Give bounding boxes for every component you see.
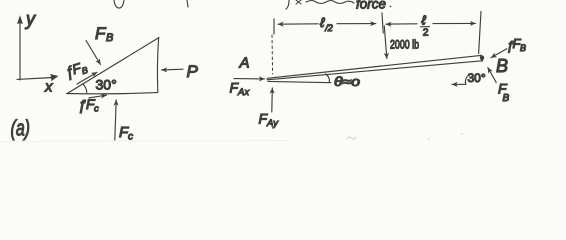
svg-text:P: P [187, 62, 199, 81]
beam bottom edge [267, 61, 482, 80]
dimension middle tick [382, 13, 383, 33]
svg-text:Ax: Ax [237, 87, 250, 98]
reaction F_Ay arrow [271, 88, 274, 112]
faint bottom marks [347, 137, 356, 139]
beam end cap at B [481, 55, 482, 60]
svg-text:B: B [496, 56, 508, 76]
svg-text:x: x [44, 79, 53, 96]
svg-text:A: A [239, 55, 250, 72]
horizontal reference line at A [268, 81, 331, 82]
svg-text:B: B [520, 43, 526, 53]
friction fF_B arrow on incline [77, 72, 97, 84]
force P arrow [162, 68, 184, 71]
svg-text:c: c [94, 104, 99, 115]
svg-text:2000 lb: 2000 lb [390, 40, 419, 52]
dimension right segment [386, 23, 392, 25]
wedge block bottom edge [67, 93, 158, 94]
svg-text:y: y [24, 9, 36, 29]
svg-text:30°: 30° [468, 71, 486, 85]
normal force F_c arrow [115, 100, 116, 140]
svg-text:ℓ: ℓ [422, 13, 427, 28]
dimension line left tick [273, 19, 275, 34]
cut-off handwriting: f x normal force [286, 0, 354, 9]
wedge block right edge [157, 38, 158, 92]
dashed tick above A [271, 35, 274, 74]
svg-text:/2: /2 [324, 23, 333, 33]
theta arc [326, 74, 330, 83]
svg-text:2: 2 [423, 27, 429, 39]
faint crease [0, 141, 290, 142]
30 degree arc left [83, 84, 87, 93]
dimension left segment with arrows [278, 23, 318, 25]
svg-text:ℓ: ℓ [320, 15, 325, 30]
30 degree annotation at B [452, 83, 466, 85]
y-axis [19, 20, 21, 80]
normal force F_B arrow at B [488, 68, 496, 83]
cut-off top text remnant left [114, 0, 124, 8]
force F_B arrow [86, 41, 101, 65]
svg-text:B: B [106, 32, 113, 44]
svg-text:(a): (a) [11, 116, 31, 141]
cut-off tick top middle [187, 0, 188, 7]
reaction F_Ax arrow [234, 78, 265, 80]
friction fF_c arrow under bottom [89, 95, 107, 98]
force 2000 lb arrow [384, 26, 387, 59]
dimension right tick down to B [479, 12, 481, 54]
wedge block incline [68, 38, 159, 94]
svg-text:θ≈o: θ≈o [334, 74, 360, 89]
svg-text:force: force [356, 0, 386, 12]
label fF_B [63, 59, 89, 82]
svg-text:30°: 30° [96, 77, 117, 93]
x-axis [17, 78, 53, 80]
svg-text:B: B [503, 93, 510, 104]
beam top edge [267, 55, 481, 78]
friction fF_B arrow at B [491, 49, 507, 58]
svg-text:Ay: Ay [266, 118, 279, 129]
